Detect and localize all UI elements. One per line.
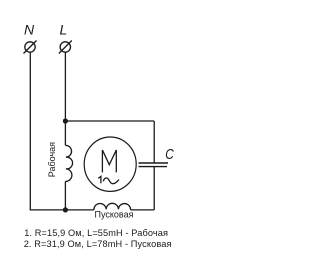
svg-text:Пусковая: Пусковая: [95, 209, 134, 219]
svg-text:C: C: [165, 146, 174, 162]
svg-text:Рабочая: Рабочая: [47, 142, 57, 177]
svg-text:1. R=15,9 Ом, L=55mH - Рабочая: 1. R=15,9 Ом, L=55mH - Рабочая: [24, 228, 168, 238]
svg-text:2. R=31,9 Ом, L=78mH - Пускова: 2. R=31,9 Ом, L=78mH - Пусковая: [24, 239, 172, 249]
svg-text:N: N: [24, 22, 35, 38]
svg-text:L: L: [60, 22, 68, 38]
